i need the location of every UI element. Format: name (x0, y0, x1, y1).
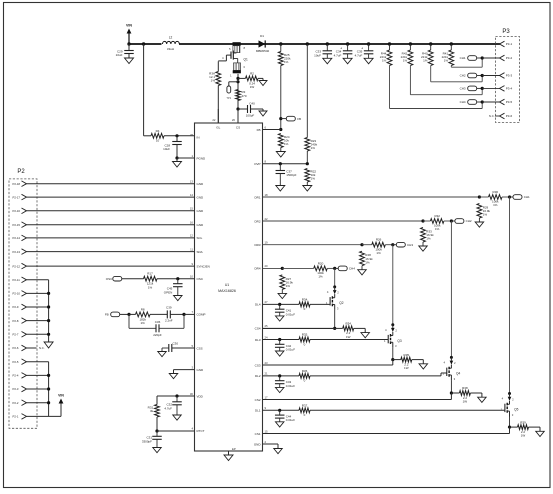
capacitor C33 10uF output (326, 44, 328, 51)
wire CS1 row (263, 433, 510, 435)
resistor R37 0 gate series (299, 408, 310, 413)
wire Q4 source to sense (450, 380, 452, 393)
junction COMP pin node (182, 313, 185, 316)
svg-text:220pF: 220pF (153, 333, 162, 337)
junction Q3 source sense (391, 358, 394, 361)
wire DR4 row (263, 267, 283, 269)
svg-text:P3: P3 (502, 29, 510, 35)
svg-text:CSS: CSS (197, 346, 203, 350)
svg-text:OSC: OSC (197, 277, 204, 281)
junction Q5 source sense (508, 426, 511, 429)
resistor R29 16.9k DR1 divider (477, 204, 482, 219)
svg-text:GND: GND (197, 209, 205, 213)
svg-text:22: 22 (212, 118, 216, 122)
svg-text:R17: R17 (147, 272, 153, 276)
pin EP exposed pad ground (228, 451, 230, 455)
svg-text:P3-4: P3-4 (506, 87, 513, 91)
capacitor C44 0.01uF gate (279, 410, 281, 415)
svg-text:1%: 1% (148, 285, 153, 289)
ground FB divider (276, 152, 285, 158)
svg-text:P2-2: P2-2 (13, 401, 19, 405)
svg-text:P2-9: P2-9 (13, 305, 19, 309)
svg-text:1%: 1% (435, 227, 440, 231)
pin P3-5 (482, 101, 499, 103)
svg-text:CH2: CH2 (460, 74, 466, 78)
svg-text:CS3: CS3 (255, 363, 261, 367)
resistor R32 100k DR2 series (423, 220, 430, 222)
connector P2 dashed box (9, 179, 37, 428)
svg-text:1W: 1W (346, 335, 351, 339)
svg-text:GND: GND (197, 368, 205, 372)
wire DL1 row from U1 (263, 409, 300, 411)
svg-text:R35: R35 (404, 353, 410, 357)
svg-text:1%: 1% (444, 59, 449, 63)
svg-text:DL4: DL4 (255, 303, 261, 307)
junction rail C34 (346, 42, 349, 45)
wire P2 ground pin (27, 333, 49, 335)
svg-text:P2-16: P2-16 (13, 209, 21, 213)
svg-text:1%: 1% (403, 59, 408, 63)
wire Q5 source to sense (509, 417, 511, 428)
svg-text:OPEN: OPEN (164, 290, 173, 294)
svg-text:R4: R4 (156, 129, 160, 133)
resistor R3A 12.1k gate drive (217, 61, 219, 71)
transistor Q1 power MOSFET with package bars (233, 42, 241, 46)
pin P3-4 (482, 87, 499, 89)
capacitor C1 0.1uF IN bypass (176, 136, 178, 142)
pin P3-2 (482, 57, 499, 59)
svg-text:IN: IN (197, 135, 200, 139)
svg-text:R2: R2 (250, 72, 254, 76)
svg-text:1%: 1% (493, 203, 498, 207)
svg-text:1W: 1W (250, 85, 255, 89)
svg-text:0.01uF: 0.01uF (286, 418, 296, 422)
resistor R2 0.24 1W current sense (238, 77, 246, 79)
resistor R24 10k FB lower divider (278, 134, 283, 148)
svg-text:1%: 1% (423, 59, 428, 63)
svg-text:FB: FB (105, 313, 109, 317)
svg-text:P2-15: P2-15 (13, 223, 21, 227)
wire Q3 source to sense (392, 348, 394, 360)
svg-text:P2-8: P2-8 (13, 319, 19, 323)
svg-text:1%: 1% (141, 321, 146, 325)
svg-text:0.01uF: 0.01uF (286, 384, 296, 388)
junction rail R40 (429, 42, 432, 45)
pin P3-3 (482, 75, 499, 77)
capacitor C39 2.2nF comp (150, 313, 167, 315)
svg-text:1%: 1% (311, 146, 316, 150)
junction rail R44 (388, 42, 391, 45)
resistor R22 10k OVP lower divider (305, 169, 310, 183)
svg-text:DL2: DL2 (255, 374, 261, 378)
svg-text:CS2: CS2 (255, 398, 261, 402)
svg-text:1%: 1% (284, 60, 289, 64)
pin 26 CS current sense (237, 109, 239, 123)
wire DL3 to gate (310, 339, 388, 341)
svg-text:10: 10 (156, 139, 160, 143)
wire CS2 row (263, 399, 452, 401)
resistor R27 16.9k DR4 divider (280, 275, 285, 290)
svg-text:D1: D1 (260, 34, 264, 38)
svg-text:N.C.: N.C. (39, 346, 45, 350)
resistor R8 182k comp (129, 313, 136, 315)
resistor R33 16.9k DR2 divider (421, 228, 426, 243)
resistor R28 16.9k DR3 divider (360, 251, 365, 266)
svg-text:P3-5: P3-5 (506, 100, 513, 104)
svg-text:1500pF: 1500pF (286, 173, 296, 177)
junction DL2 cap (278, 374, 281, 377)
junction Q4 source sense (450, 391, 453, 394)
wire top rail (129, 43, 500, 45)
svg-text:P3-6: P3-6 (506, 114, 513, 118)
ground C43 (275, 387, 284, 392)
wire R42 elbow to P3 string (409, 66, 411, 95)
svg-text:P2-5: P2-5 (13, 360, 19, 364)
resistor R25 220k FB upper divider (280, 44, 282, 52)
wire FB pin 6 (263, 129, 281, 131)
junction PGND node (175, 156, 178, 159)
svg-text:SCL: SCL (197, 236, 203, 240)
svg-text:P2-7: P2-7 (13, 333, 19, 337)
svg-text:RTCT: RTCT (197, 429, 205, 433)
ground VDD cap (173, 415, 182, 420)
svg-text:18: 18 (265, 193, 269, 197)
svg-text:26: 26 (232, 118, 236, 122)
svg-text:25: 25 (265, 324, 269, 328)
junction FB pin node (279, 128, 282, 131)
wire P2 ground pin (27, 320, 49, 322)
resistor R4 10 input filter (151, 133, 164, 138)
svg-text:VIN: VIN (58, 394, 64, 398)
svg-text:R34: R34 (302, 298, 308, 302)
junction DR2 divider (421, 219, 424, 222)
svg-text:10: 10 (190, 275, 194, 279)
svg-text:C30: C30 (173, 341, 179, 345)
svg-text:Q1: Q1 (244, 58, 248, 62)
svg-text:EP: EP (232, 447, 236, 451)
wire OVP pin 3 (263, 163, 308, 165)
svg-text:Q3: Q3 (397, 339, 401, 343)
wire P2-1 to VIN arrow (27, 415, 62, 417)
junction DL1 cap (278, 409, 281, 412)
ground sense 2 (481, 393, 483, 397)
capacitor C41 0.01uF gate (279, 304, 281, 309)
junction CH4 drain node (333, 267, 336, 270)
svg-text:1W: 1W (463, 399, 468, 403)
svg-text:+: + (361, 46, 363, 50)
svg-text:P2-14: P2-14 (13, 236, 21, 240)
svg-text:R32: R32 (434, 214, 440, 218)
junction OVP node (306, 162, 309, 165)
ground C45 (174, 296, 183, 301)
capacitor C31 3300pF CT (156, 431, 158, 436)
svg-text:24: 24 (265, 335, 269, 339)
svg-text:0.01uF: 0.01uF (286, 312, 296, 316)
svg-text:R36: R36 (302, 369, 308, 373)
wire P2 to U1 (27, 265, 195, 267)
diode D1 MBR0540 boost rectifier (259, 40, 266, 47)
pin P2-6 not connected (27, 347, 37, 349)
test point TP1 loop (229, 81, 238, 83)
svg-text:SDA: SDA (197, 250, 203, 254)
junction rail R42 (409, 42, 412, 45)
capacitor C34 4.7uF output (347, 44, 349, 51)
svg-text:P3-2: P3-2 (506, 56, 513, 60)
junction rail OVP divider (306, 42, 309, 45)
resistor R17 121k osc set (144, 276, 158, 281)
svg-text:2.2nF: 2.2nF (165, 319, 173, 323)
junction DR1 divider (478, 195, 481, 198)
ground sense 4 (364, 328, 366, 332)
wire DR2 row (263, 220, 424, 222)
svg-text:4.7uF: 4.7uF (164, 406, 172, 410)
node VIN at P2 (59, 399, 64, 404)
wire DL1 to gate (310, 409, 505, 411)
junction CH3 drain node (391, 243, 394, 246)
svg-text:R35: R35 (302, 333, 308, 337)
svg-text:10uF: 10uF (163, 147, 170, 151)
node VIN supply arrow (128, 33, 130, 44)
svg-text:14: 14 (190, 193, 194, 197)
junction CH1 string node (481, 56, 484, 59)
wire COMP pin 7 (184, 313, 195, 315)
resistor R34 0 gate series (299, 302, 310, 307)
svg-text:MBR0540: MBR0540 (256, 49, 270, 53)
svg-text:0.01uF: 0.01uF (286, 347, 296, 351)
resistor R40 221k string bleed (430, 44, 432, 50)
svg-text:10uF: 10uF (314, 53, 321, 57)
svg-text:R8: R8 (141, 307, 145, 311)
svg-text:27: 27 (265, 300, 269, 304)
svg-text:P2-13: P2-13 (13, 250, 21, 254)
wire P2 to U1 (27, 210, 195, 212)
svg-text:R30: R30 (493, 190, 499, 194)
svg-text:DL1: DL1 (255, 409, 261, 413)
resistor R35 0 gate series (299, 337, 310, 342)
wire drain vertical CH4 (334, 268, 336, 287)
resistor R3 470 CS filter (236, 90, 241, 101)
junction CH2 drain node (450, 219, 453, 222)
svg-text:1%: 1% (284, 142, 289, 146)
junction VIN node (127, 42, 130, 45)
wire R41 elbow to P3 string (450, 66, 452, 68)
svg-text:3k: 3k (150, 409, 154, 413)
svg-text:3300pF: 3300pF (142, 439, 152, 443)
svg-text:FB: FB (257, 128, 261, 132)
ground PGND (176, 158, 178, 162)
junction IN bypass node (175, 134, 178, 137)
svg-text:R20: R20 (318, 261, 324, 265)
svg-text:GND: GND (197, 223, 205, 227)
ground P2 group (44, 342, 53, 348)
svg-text:1%: 1% (376, 251, 381, 255)
wire P2 to U1 (27, 237, 195, 239)
wire P2 to U1 (27, 251, 195, 253)
svg-text:DR2: DR2 (254, 219, 260, 223)
svg-text:470: 470 (242, 94, 247, 98)
svg-text:1%: 1% (311, 177, 316, 181)
junction COMP RC node (127, 313, 130, 316)
svg-text:TP1: TP1 (226, 96, 231, 100)
svg-text:OVP: OVP (254, 162, 260, 166)
resistor R23 240k OVP upper divider (306, 44, 308, 138)
svg-text:N.C.: N.C. (489, 114, 495, 118)
wire P2 VIN group (27, 361, 49, 363)
pin P3-1 (500, 41, 505, 47)
svg-text:30: 30 (190, 392, 194, 396)
svg-text:CH3: CH3 (407, 243, 413, 247)
svg-text:P2-3: P2-3 (13, 387, 19, 391)
resistor R36 0 gate series (299, 374, 310, 379)
svg-text:1W: 1W (521, 434, 526, 438)
svg-text:P2-6: P2-6 (13, 346, 19, 350)
resistor R31 3.01k RT (156, 396, 158, 405)
svg-text:R39: R39 (520, 420, 526, 424)
svg-text:CS4: CS4 (255, 327, 261, 331)
resistor R38 2.2 1W sense (451, 392, 459, 394)
svg-text:FB: FB (297, 117, 301, 121)
junction Q1 source sense node (236, 77, 239, 80)
svg-text:1%: 1% (426, 237, 431, 241)
transistor Q2 string MOSFET (333, 285, 336, 288)
svg-text:4.7uF: 4.7uF (355, 53, 363, 57)
wire R44 elbow to P3 string (389, 66, 391, 109)
svg-text:VDD: VDD (197, 394, 204, 398)
resistor R26 100k DR3 series (362, 244, 372, 246)
ground C41 (275, 316, 284, 321)
svg-text:P2-11: P2-11 (13, 278, 21, 282)
svg-text:+: + (340, 46, 342, 50)
svg-text:SYNC/EN: SYNC/EN (197, 264, 210, 268)
ground CT cap (153, 448, 162, 453)
capacitor C32 4.7uF VDD bypass (176, 396, 178, 402)
svg-text:CH1: CH1 (460, 56, 466, 60)
svg-text:16: 16 (190, 221, 194, 225)
jumper FB test point (281, 118, 287, 120)
svg-text:VIN: VIN (126, 24, 132, 28)
svg-text:23: 23 (265, 361, 269, 365)
capacitor C37 1500pF OVP filter (279, 164, 281, 171)
junction DL4 cap (278, 303, 281, 306)
svg-text:CH2: CH2 (466, 219, 472, 223)
svg-text:PGND: PGND (197, 156, 207, 160)
svg-text:DR4: DR4 (254, 267, 260, 271)
jumper CH4 drain (335, 267, 339, 269)
svg-text:28: 28 (190, 133, 194, 137)
svg-text:R38: R38 (462, 386, 468, 390)
jumper CH3 drain (393, 244, 397, 246)
resistor R20 100k DR4 series (282, 267, 313, 269)
svg-text:1%: 1% (365, 260, 370, 264)
svg-text:1%: 1% (318, 275, 323, 279)
svg-text:P2-12: P2-12 (13, 264, 21, 268)
svg-text:L2: L2 (169, 35, 173, 39)
ground OVP divider (303, 186, 312, 192)
junction DL3 cap (278, 338, 281, 341)
transistor Q3 string MOSFET (391, 323, 394, 326)
connector P3 dashed box (496, 37, 520, 123)
op-amp U1 MAX16826 LED driver IC body (195, 123, 263, 451)
wire Q2 source to sense (334, 310, 336, 329)
svg-text:Q2: Q2 (339, 301, 343, 305)
ground sense 1 (539, 427, 541, 431)
capacitor C45 OPEN (177, 279, 179, 284)
ground DR1 divider (475, 222, 484, 227)
junction IN feed node (142, 42, 145, 45)
svg-text:1%: 1% (286, 284, 291, 288)
svg-text:DL3: DL3 (255, 338, 261, 342)
svg-text:CH1: CH1 (524, 195, 530, 199)
junction Q2 source sense (333, 327, 336, 330)
junction rail C33 (326, 42, 329, 45)
wire DL3 row from U1 (263, 339, 300, 341)
junction test point tap (236, 80, 239, 83)
capacitor C29 10uF input bypass (128, 44, 130, 51)
junction rail C35 (367, 42, 370, 45)
svg-text:15: 15 (265, 429, 269, 433)
svg-text:13: 13 (190, 180, 194, 184)
capacitor C40 100pF CS filter (238, 108, 247, 110)
svg-text:C39: C39 (166, 306, 172, 310)
wire drain vertical CH3 (392, 245, 394, 325)
svg-text:CH4: CH4 (460, 100, 466, 104)
ground DR4 divider (278, 293, 287, 298)
svg-text:12: 12 (190, 234, 194, 238)
wire CS3 row (263, 364, 393, 366)
svg-text:C36: C36 (155, 320, 161, 324)
svg-text:P2-17: P2-17 (13, 195, 21, 199)
svg-text:11: 11 (190, 247, 193, 251)
svg-text:22: 22 (265, 217, 269, 221)
wire CS4 row (263, 327, 335, 329)
resistor R35 2.2 1W sense (393, 359, 401, 361)
wire P2 VIN pin (27, 374, 49, 376)
svg-text:OSC: OSC (106, 277, 113, 281)
ground DR2 divider (419, 246, 428, 251)
resistor R41 221k string bleed (450, 44, 452, 50)
wire PGND pin (177, 157, 195, 159)
svg-text:100pF: 100pF (246, 114, 255, 118)
wire DL2 row from U1 (263, 375, 300, 377)
svg-text:MAX16826: MAX16826 (218, 289, 236, 293)
svg-text:CH4: CH4 (349, 267, 355, 271)
svg-text:20: 20 (265, 264, 269, 268)
transistor Q5 string MOSFET (508, 392, 511, 395)
svg-text:Q5: Q5 (514, 408, 518, 412)
svg-text:21: 21 (265, 372, 269, 376)
svg-text:Q4: Q4 (456, 372, 460, 376)
wire DR1 row (263, 196, 480, 198)
svg-text:GND: GND (197, 182, 205, 186)
ground DR3 divider (358, 270, 367, 275)
wire DL4 to gate (310, 303, 330, 305)
ground C42 (275, 351, 284, 356)
svg-text:P3-3: P3-3 (506, 74, 513, 78)
svg-text:P2-4: P2-4 (13, 374, 19, 378)
capacitor C42 0.01uF gate (279, 340, 281, 345)
svg-text:19: 19 (265, 241, 269, 245)
wire drain vertical CH2 (450, 221, 452, 357)
transistor Q4 string MOSFET (450, 356, 453, 359)
svg-text:COMP: COMP (197, 313, 206, 317)
svg-text:GND: GND (197, 195, 205, 199)
junction RTCT node (155, 429, 158, 432)
svg-text:P3-1: P3-1 (506, 42, 513, 46)
wire GND pin 3 (174, 369, 195, 371)
wire P2 VIN pin (27, 388, 49, 390)
svg-text:P2-10: P2-10 (13, 292, 21, 296)
capacitor C35 4.7uF output (368, 44, 370, 51)
